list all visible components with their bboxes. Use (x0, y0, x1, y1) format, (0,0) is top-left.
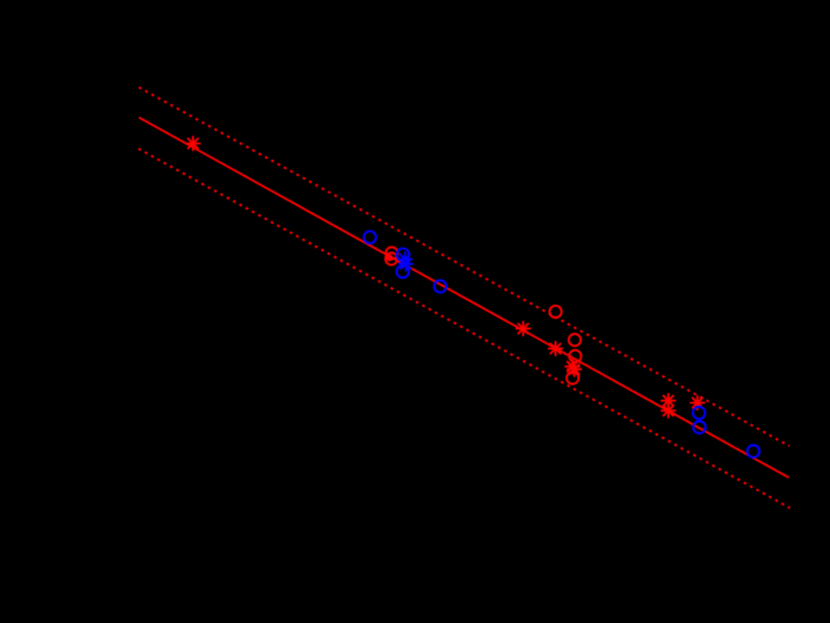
red asterisk point 8 (691, 396, 705, 410)
red circle point 5 (569, 334, 581, 346)
red asterisk point 6 (662, 394, 676, 408)
blue circle point 6 (693, 421, 705, 433)
blue circle point 2 (397, 248, 409, 260)
red asterisk point 2 (516, 322, 530, 336)
red circle point 1 (386, 247, 398, 259)
lower confidence band (dotted red) (139, 149, 791, 508)
red circle point 2 (385, 253, 397, 265)
upper confidence band (dotted red) (139, 87, 790, 446)
blue circle point 1 (364, 231, 376, 243)
blue circle point 7 (747, 445, 759, 457)
blue asterisk point 1 (398, 252, 412, 266)
red asterisk point 7 (662, 404, 676, 418)
blue circle point 5 (693, 407, 705, 419)
blue circle point 3 (397, 266, 409, 278)
red asterisk point 4 (566, 360, 580, 374)
red circle point 6 (569, 350, 581, 362)
red circle point 7 (567, 372, 579, 384)
blue asterisk point 2 (399, 257, 413, 271)
red asterisk point 5 (568, 363, 582, 377)
red asterisk point 3 (549, 342, 563, 356)
blue circle point 4 (434, 280, 446, 292)
red asterisk point 1 (186, 137, 200, 151)
red circle point 4 (550, 306, 562, 318)
regression fit line (solid red) (139, 117, 789, 477)
red small circle point 3 (387, 255, 392, 260)
